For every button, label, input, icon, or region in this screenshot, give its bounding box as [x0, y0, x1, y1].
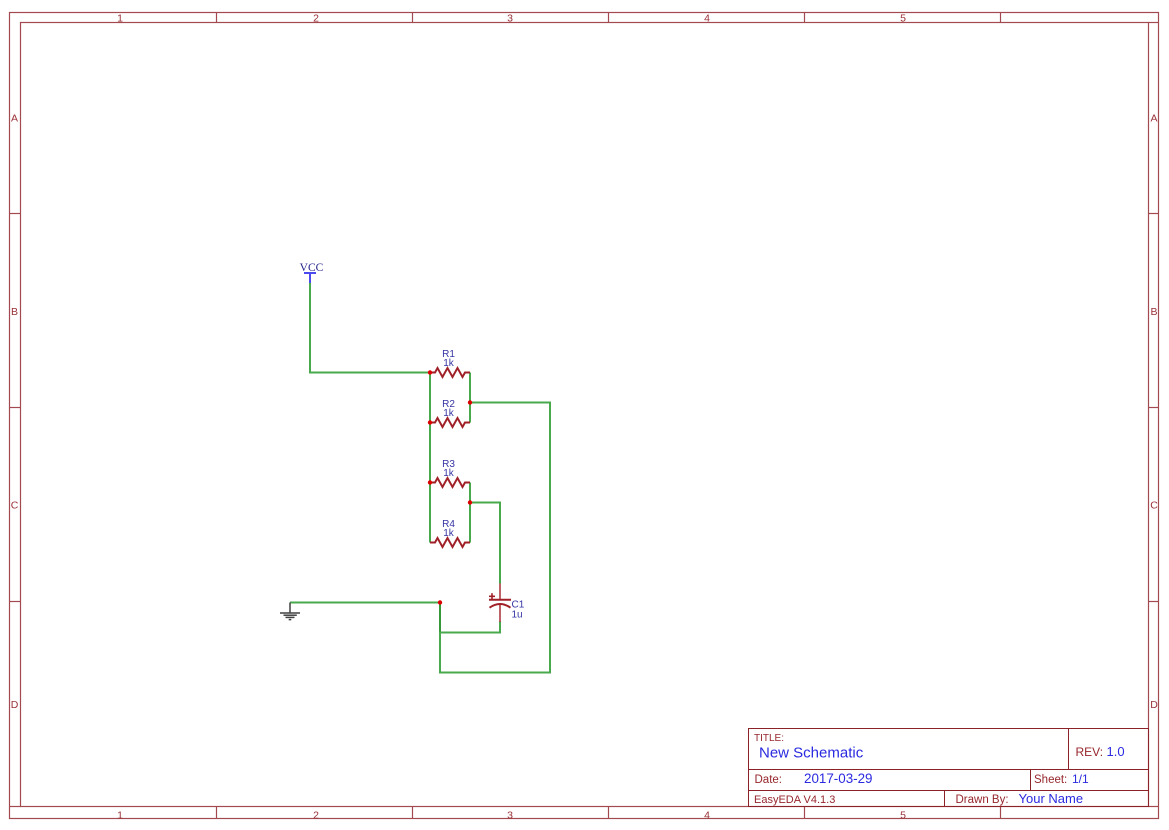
svg-text:C: C	[1150, 500, 1158, 512]
svg-text:4: 4	[704, 12, 710, 24]
svg-text:Date:: Date:	[755, 774, 783, 786]
svg-text:D: D	[1150, 699, 1158, 711]
svg-text:5: 5	[900, 809, 906, 821]
svg-text:A: A	[11, 112, 18, 124]
svg-text:Drawn By:: Drawn By:	[956, 794, 1009, 806]
svg-text:EasyEDA V4.1.3: EasyEDA V4.1.3	[754, 794, 835, 806]
svg-text:4: 4	[704, 809, 710, 821]
svg-text:C: C	[11, 500, 19, 512]
svg-text:1.0: 1.0	[1107, 744, 1125, 759]
svg-text:1k: 1k	[443, 528, 455, 539]
svg-text:1k: 1k	[443, 408, 455, 419]
svg-text:1: 1	[117, 12, 123, 24]
svg-text:Sheet:: Sheet:	[1034, 774, 1067, 786]
svg-text:1u: 1u	[512, 610, 523, 621]
svg-text:B: B	[1150, 306, 1157, 318]
svg-text:2: 2	[313, 12, 319, 24]
svg-text:A: A	[1150, 112, 1157, 124]
svg-text:TITLE:: TITLE:	[754, 733, 784, 744]
svg-text:1: 1	[117, 809, 123, 821]
svg-text:B: B	[11, 306, 18, 318]
svg-text:1k: 1k	[443, 358, 455, 369]
svg-text:Your Name: Your Name	[1019, 791, 1084, 806]
svg-text:REV:: REV:	[1076, 745, 1104, 759]
svg-text:2017-03-29: 2017-03-29	[804, 771, 873, 786]
svg-text:1k: 1k	[443, 468, 455, 479]
svg-text:3: 3	[507, 809, 513, 821]
svg-text:D: D	[11, 699, 19, 711]
svg-text:3: 3	[507, 12, 513, 24]
svg-text:New Schematic: New Schematic	[759, 745, 864, 762]
svg-text:2: 2	[313, 809, 319, 821]
svg-text:VCC: VCC	[300, 262, 324, 274]
svg-text:1/1: 1/1	[1072, 772, 1089, 786]
svg-text:5: 5	[900, 12, 906, 24]
